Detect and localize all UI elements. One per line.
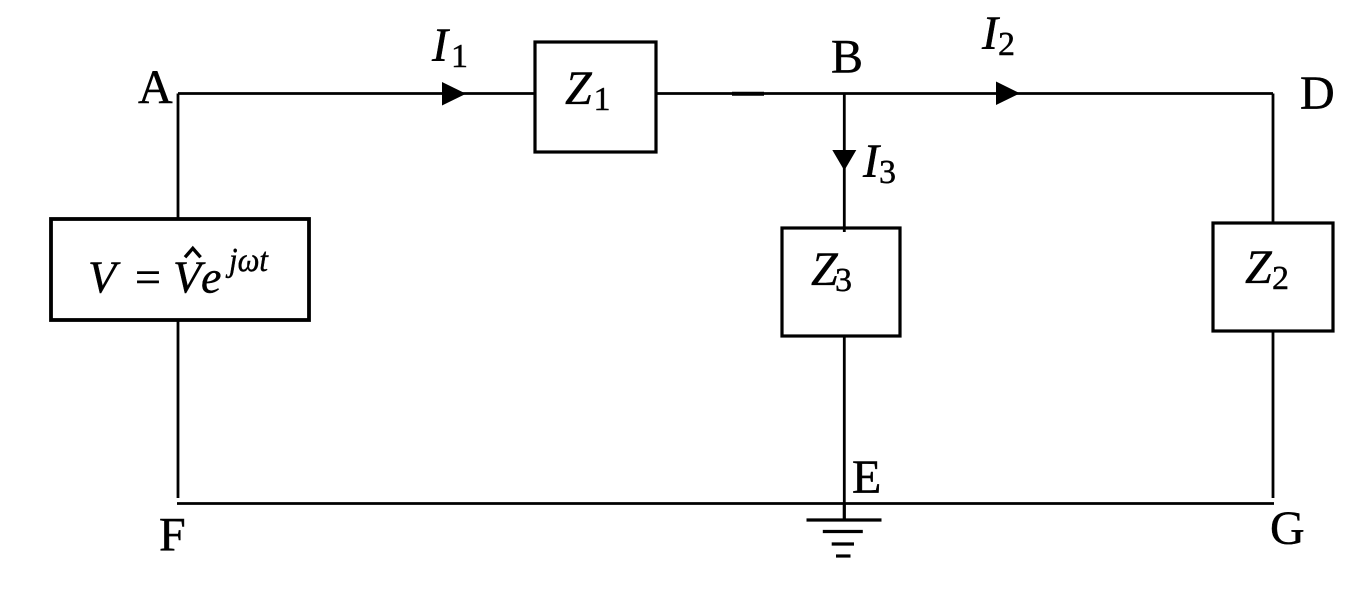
ground bar 3 — [832, 542, 854, 545]
svg-text:jωt: jωt — [225, 242, 269, 279]
ground symbol at E — [807, 504, 882, 557]
svg-text:Z: Z — [1245, 241, 1273, 294]
impedance Z2 box — [1213, 223, 1333, 331]
bottom wire F to E to G — [177, 502, 1274, 505]
label I3 — [862, 135, 896, 191]
svg-text:Z: Z — [565, 62, 593, 115]
wire A vertical to source — [177, 94, 180, 220]
label Z2 — [1245, 241, 1289, 297]
wire overlap segment — [732, 92, 764, 96]
svg-text:3: 3 — [835, 262, 852, 299]
impedance Z3 box — [782, 228, 900, 336]
svg-text:2: 2 — [1272, 260, 1289, 297]
label I2 — [981, 7, 1015, 63]
current arrow I3 — [832, 150, 856, 171]
label Z1 — [565, 62, 611, 118]
current arrow I1 — [442, 82, 466, 106]
svg-text:D: D — [1300, 67, 1335, 120]
svg-text:A: A — [138, 61, 173, 114]
label I1 — [431, 19, 468, 75]
svg-text:1: 1 — [594, 81, 611, 118]
wire source to F — [177, 320, 180, 498]
ground bar 2 — [823, 530, 863, 533]
wire B down to Z3 — [843, 94, 846, 233]
svg-text:F: F — [159, 509, 186, 562]
voltage source label V = V^ e^jwt — [88, 242, 269, 303]
label Z3 — [811, 243, 852, 299]
ground stem — [843, 504, 846, 521]
wire Z1 to B to D — [656, 92, 1273, 95]
wire A to Z1 — [178, 92, 535, 95]
wire D down to Z2 — [1272, 94, 1275, 224]
current arrow I2 — [996, 82, 1020, 106]
ground bar 1 — [807, 518, 882, 521]
svg-text:I: I — [431, 19, 450, 72]
hat accent over V — [185, 248, 201, 257]
svg-text:2: 2 — [998, 26, 1015, 63]
voltage source box — [51, 219, 309, 320]
impedance Z1 box — [535, 42, 656, 152]
ground bar 4 — [836, 554, 851, 557]
svg-text:G: G — [1270, 502, 1305, 555]
svg-text:V: V — [88, 252, 121, 303]
svg-text:B: B — [831, 31, 863, 84]
svg-text:1: 1 — [451, 38, 468, 75]
svg-text:e: e — [201, 252, 221, 303]
svg-text:E: E — [852, 451, 881, 504]
svg-text:=: = — [135, 252, 161, 303]
wire Z3 to E — [843, 336, 846, 504]
svg-text:3: 3 — [879, 154, 896, 191]
wire Z2 to G — [1272, 331, 1275, 498]
